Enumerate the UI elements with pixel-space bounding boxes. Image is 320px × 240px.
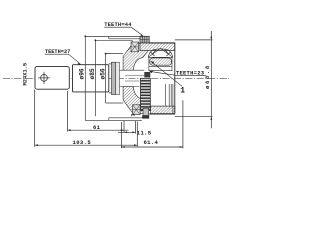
svg-text:61: 61 [93,124,101,131]
bell top wall (hatched) [140,43,175,51]
svg-text:61.4: 61.4 [144,139,159,146]
bell back wall top (hatched) [123,43,148,70]
label TEETH=23 [149,70,206,77]
ball (hatched) [150,58,172,65]
splined bore (striped) [141,78,151,110]
spline section (rect2) TEETH=27 [73,65,109,92]
bell outer edge lines [149,43,175,114]
svg-text:1: 1 [180,87,185,96]
boot seat surfaces [109,64,112,93]
boot groove ring 1 [112,62,116,94]
inner race bottom verticals [166,84,173,114]
boot clamp top [131,42,139,52]
leader Ø56 [106,54,124,103]
bell bottom wall (hatched) [151,106,175,114]
svg-text:ø96: ø96 [78,68,85,79]
leader Ø85 [95,40,132,116]
svg-text:103.5: 103.5 [73,139,92,146]
item number 1 with leader to ball [151,61,182,86]
dust shield band [85,36,142,120]
svg-text:ø56: ø56 [99,68,106,79]
bell right face [174,43,176,114]
cage dome [148,48,172,57]
label TEETH=27 [45,49,81,65]
svg-text:ø85: ø85 [89,68,96,79]
centerline [3,77,229,79]
ABS tone ring bottom [142,108,149,118]
shaft body (rect1) [35,67,69,90]
boot groove ring 2 [116,62,120,94]
bell back wall bottom (hatched) [123,87,148,114]
center mark [38,72,50,84]
spline bore dark block [144,72,150,77]
svg-text:ø68.8: ø68.8 [204,64,211,89]
dim 103.5 [35,90,138,147]
dim 61.4 [121,100,182,148]
svg-text:11.5: 11.5 [137,130,152,137]
ABS tone ring top TEETH=44 [140,36,149,43]
shaft bore lines through neck [120,70,145,86]
boot clamp bottom [133,105,141,115]
dim 61 [67,91,128,132]
leader Ø96 [85,36,142,120]
dim 11.5 [118,121,136,134]
label TEETH=44 [104,22,143,37]
dim right diameter [175,31,213,128]
svg-text:M24X1.5: M24X1.5 [23,63,29,86]
inner race top [149,57,172,71]
